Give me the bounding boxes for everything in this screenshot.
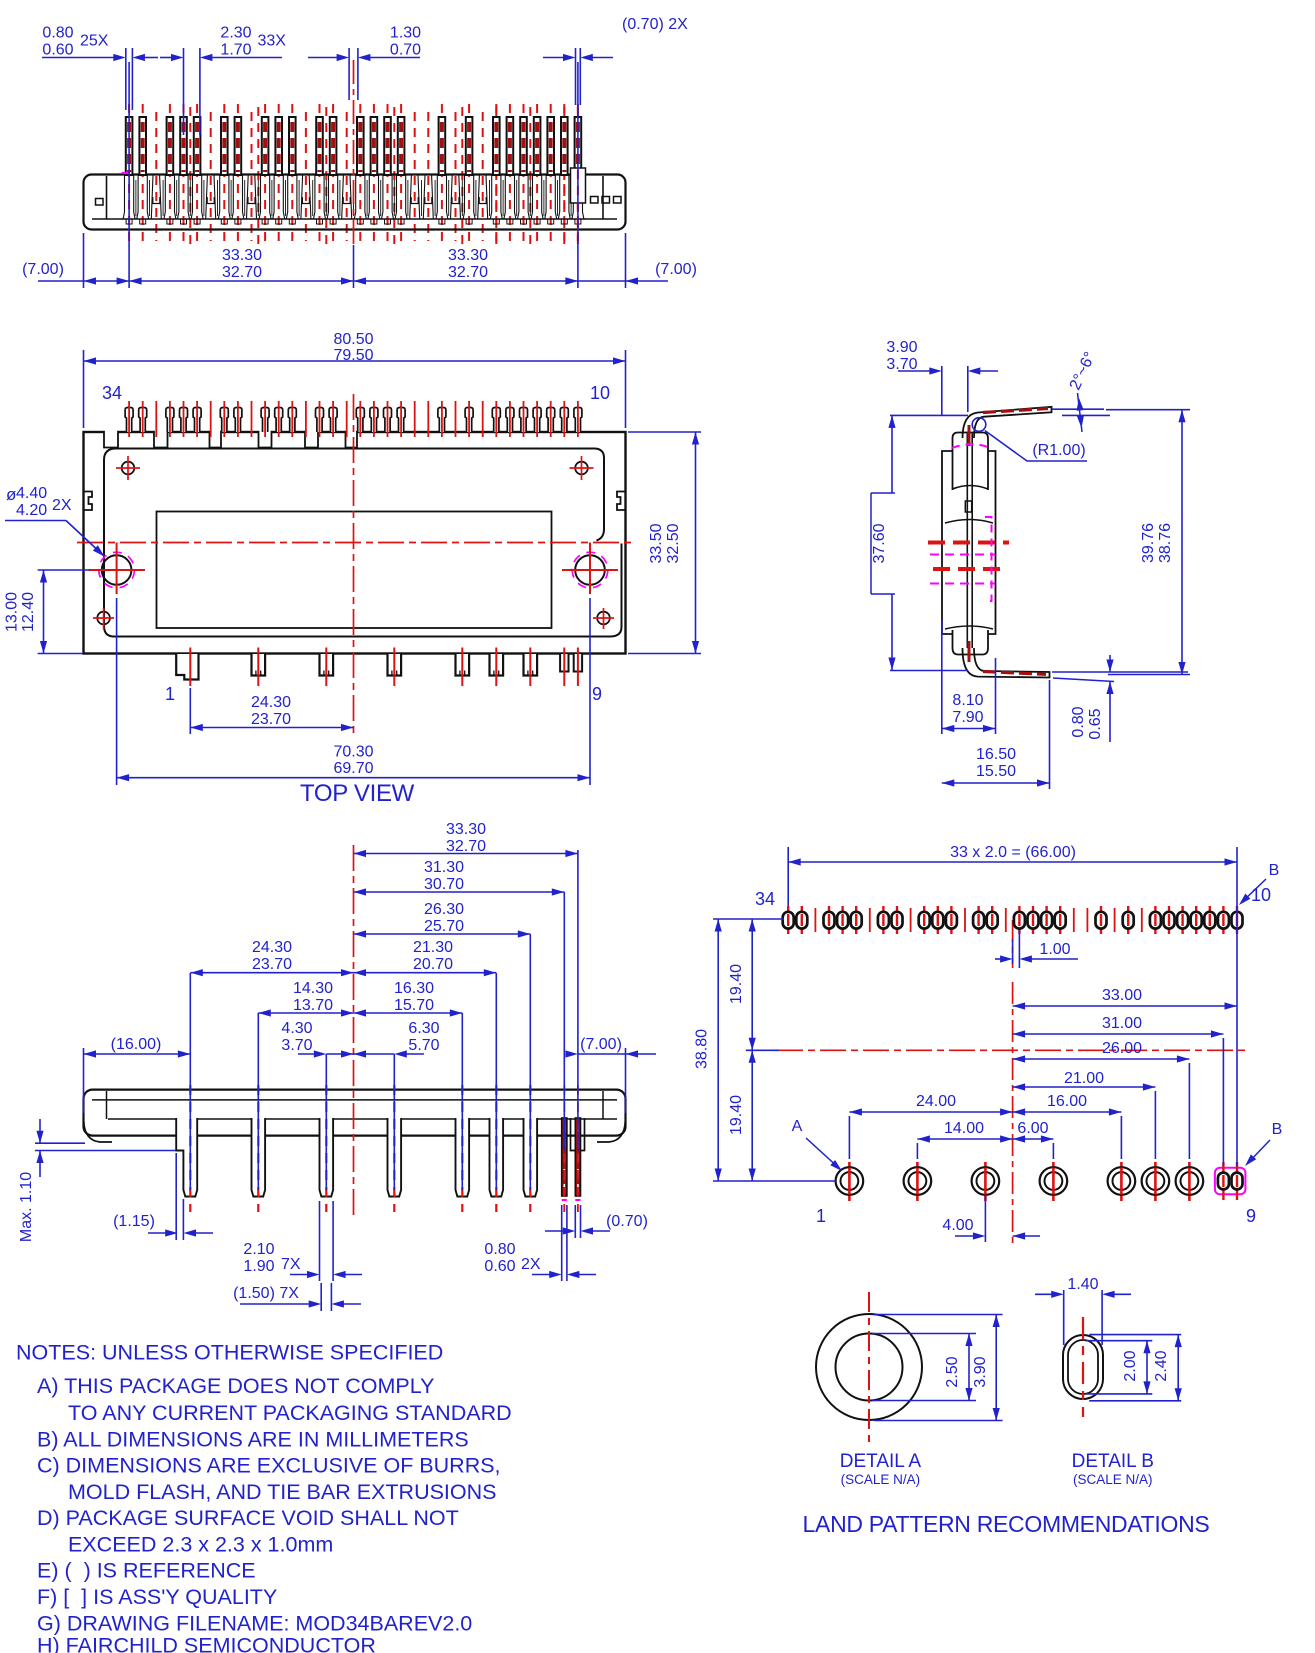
bottom view dim 26.30/25.70 <box>354 901 531 938</box>
svg-text:F) [ ] IS ASS'Y QUALITY: F) [ ] IS ASS'Y QUALITY <box>37 1585 277 1609</box>
bottom view: blue extension lines <box>84 850 626 1190</box>
front view: hidden bottom-row pin centerlines (pins 1-9) <box>190 107 578 247</box>
svg-text:EXCEED 2.3 x 2.3 x 1.0mm: EXCEED 2.3 x 2.3 x 1.0mm <box>68 1533 333 1557</box>
land pattern dim 38.80 (left) <box>694 919 837 1181</box>
svg-text:(7.00): (7.00) <box>580 1036 622 1053</box>
top view: inner frame <box>104 449 622 637</box>
svg-text:37.60: 37.60 <box>871 523 888 563</box>
bottom view: thin pins 8-9 (filled) <box>562 1085 585 1212</box>
detail B dims 2.00 and 2.40 <box>1085 1335 1181 1401</box>
top view: left edge notch <box>84 492 93 511</box>
svg-text:9: 9 <box>592 684 602 704</box>
svg-text:31.30: 31.30 <box>424 859 464 876</box>
svg-text:2.10: 2.10 <box>243 1241 274 1258</box>
svg-text:32.70: 32.70 <box>446 838 486 855</box>
bottom view: pin centerlines 1-7 <box>190 1085 530 1212</box>
land pattern dim 16.00 <box>1013 1093 1122 1159</box>
svg-text:(7.00): (7.00) <box>655 261 697 278</box>
land pattern: horizontal centerline <box>777 1049 1250 1051</box>
svg-text:32.70: 32.70 <box>448 264 488 281</box>
top view title TOP VIEW <box>300 780 415 807</box>
front view dim (0.70) 2X (thin pin width) <box>543 16 688 105</box>
top view dim 80.50/79.50 <box>84 331 626 428</box>
top view: label recess rectangle <box>157 512 552 629</box>
svg-text:4.00: 4.00 <box>942 1217 973 1234</box>
svg-text:A) THIS PACKAGE DOES NOT COMPL: A) THIS PACKAGE DOES NOT COMPLY <box>37 1374 434 1398</box>
bottom view dim 2.10/1.90 7X (pin width) <box>243 1201 362 1281</box>
svg-text:10: 10 <box>590 383 610 403</box>
land pattern label 10 with leader B <box>1239 862 1279 905</box>
svg-text:2.50: 2.50 <box>944 1356 961 1387</box>
front view: body outline <box>84 175 626 230</box>
bottom view dim 21.30/20.70 <box>354 939 497 976</box>
land pattern dim 33 x 2.0 = (66.00) <box>788 844 1237 1166</box>
svg-text:A: A <box>792 1118 803 1135</box>
top view pin label 10 <box>590 383 610 403</box>
svg-text:79.50: 79.50 <box>333 347 373 364</box>
bottom view dim 33.30/32.70 <box>354 821 578 857</box>
bottom view dim Max. 1.10 (standoff) <box>18 1119 176 1242</box>
side view: R1.00 bend circle marker <box>972 418 986 432</box>
land pattern: vertical centerline <box>1012 920 1014 1247</box>
svg-text:33X: 33X <box>258 33 287 50</box>
svg-text:16.50: 16.50 <box>976 746 1016 763</box>
svg-text:33.30: 33.30 <box>446 821 486 838</box>
top view: pin centerlines (red) <box>129 401 578 437</box>
notes text block <box>16 1341 512 1653</box>
land pattern: bottom pads pins 1-7 <box>836 1162 1204 1201</box>
svg-text:(SCALE N/A): (SCALE N/A) <box>841 1472 921 1487</box>
bottom view dim 4.30/3.70 <box>281 1020 366 1058</box>
svg-text:Max. 1.10: Max. 1.10 <box>18 1172 35 1242</box>
svg-text:0.60: 0.60 <box>484 1258 515 1275</box>
svg-text:4.20: 4.20 <box>16 502 47 519</box>
land pattern dim 6.00 <box>1013 1120 1054 1159</box>
svg-text:2.30: 2.30 <box>220 25 251 42</box>
svg-text:B: B <box>1269 862 1280 879</box>
bottom view dim 31.30/30.70 <box>354 859 565 896</box>
bottom view dim 24.30/23.70 <box>190 939 353 976</box>
detail B dim 1.40 <box>1035 1276 1131 1345</box>
svg-text:24.00: 24.00 <box>916 1093 956 1110</box>
svg-text:(R1.00): (R1.00) <box>1032 442 1085 459</box>
svg-text:4.40: 4.40 <box>16 485 47 502</box>
svg-text:3.70: 3.70 <box>281 1037 312 1054</box>
svg-text:19.40: 19.40 <box>728 1095 745 1135</box>
svg-text:9: 9 <box>1246 1206 1256 1226</box>
svg-text:24.30: 24.30 <box>252 939 292 956</box>
svg-text:80.50: 80.50 <box>333 331 373 348</box>
svg-text:20.70: 20.70 <box>413 956 453 973</box>
svg-text:1.00: 1.00 <box>1039 941 1070 958</box>
svg-text:7X: 7X <box>281 1256 301 1273</box>
bottom view dim (1.50) 7X (pin tip) <box>233 1283 361 1311</box>
detail B title <box>1072 1451 1154 1487</box>
svg-text:ø: ø <box>6 485 16 504</box>
bottom view dim 6.30/5.70 <box>341 1020 440 1058</box>
svg-text:0.80: 0.80 <box>42 25 73 42</box>
svg-text:26.00: 26.00 <box>1102 1040 1142 1057</box>
svg-text:4.30: 4.30 <box>281 1020 312 1037</box>
svg-text:E) ( ) IS REFERENCE: E) ( ) IS REFERENCE <box>37 1559 256 1583</box>
svg-text:34: 34 <box>755 889 775 909</box>
svg-text:25.70: 25.70 <box>424 918 464 935</box>
side view dim 0.80/0.65 (lead thickness) <box>1052 655 1188 742</box>
top view: top edge castellation notches <box>104 429 357 448</box>
land pattern: bottom pads pins 8-9 with magenta outline <box>1215 1162 1246 1200</box>
land pattern dim 21.00 <box>1013 1070 1156 1159</box>
svg-text:6.00: 6.00 <box>1017 1120 1048 1137</box>
side view: bottom bent lead <box>963 641 1050 678</box>
land pattern: top row pads (pins 34..10) <box>783 906 1243 934</box>
land pattern dim 19.40 bottom <box>728 1050 756 1181</box>
front view: pin 9/10 slot at right end <box>571 168 586 241</box>
svg-text:34: 34 <box>102 383 122 403</box>
svg-text:38.76: 38.76 <box>1157 523 1174 563</box>
detail A dims 2.50 and 3.90 <box>872 1315 1003 1421</box>
front view: vacant slot hidden pin centerlines <box>156 112 482 241</box>
top view: bottom thin pins 8-9 <box>560 654 582 672</box>
top view pin label 9 <box>592 684 602 704</box>
top view: bottom pins 1-7 <box>176 654 537 680</box>
land pattern dim 4.00 <box>942 1195 1040 1242</box>
svg-text:0.80: 0.80 <box>484 1241 515 1258</box>
land pattern dim 33.00 <box>1013 987 1237 1010</box>
svg-text:D) PACKAGE SURFACE VOID SHALL: D) PACKAGE SURFACE VOID SHALL NOT <box>37 1506 459 1530</box>
svg-text:16.00: 16.00 <box>1047 1093 1087 1110</box>
bottom view: pins 1-7 <box>176 1118 537 1197</box>
side view dim 2~6 degrees <box>1052 349 1110 432</box>
front view: pocket ledge squares at vacant slots <box>153 197 486 204</box>
front view: pin shoulders in body <box>123 175 584 219</box>
svg-text:39.76: 39.76 <box>1140 523 1157 563</box>
front view: vertical centerline <box>353 60 355 245</box>
svg-text:13.70: 13.70 <box>293 997 333 1014</box>
top view: left mounting hole with magenta thread circle <box>89 543 145 595</box>
svg-text:15.50: 15.50 <box>976 763 1016 780</box>
detail B: pad ovals <box>1063 1335 1103 1399</box>
top view: corner screw boss top-right <box>570 456 594 480</box>
bottom view dim 14.30/13.70 <box>258 980 353 1017</box>
svg-text:21.00: 21.00 <box>1064 1070 1104 1087</box>
svg-text:B: B <box>1272 1121 1283 1138</box>
svg-text:(0.70) 2X: (0.70) 2X <box>622 16 688 33</box>
svg-text:G) DRAWING FILENAME: MOD34BARE: G) DRAWING FILENAME: MOD34BAREV2.0 <box>37 1612 472 1636</box>
bottom view dim (1.15) <box>113 1153 213 1240</box>
side view: magenta hidden hole lines <box>930 444 995 601</box>
svg-text:2X: 2X <box>521 1256 541 1273</box>
land pattern dim 19.40 top <box>728 919 756 1050</box>
svg-text:0.80: 0.80 <box>1070 706 1087 737</box>
bottom view dim (0.70) <box>545 1205 648 1238</box>
top view dim 33.50/32.50 (right) <box>628 432 701 654</box>
top view: right mounting hole with magenta thread circle <box>562 543 618 595</box>
front view: magenta datum tick at pin 34 <box>122 172 131 174</box>
front view: pin feet under seating line <box>126 219 581 224</box>
detail B: centerline <box>1082 1317 1084 1417</box>
svg-text:0.70: 0.70 <box>390 42 421 59</box>
front view: top-row pin centerlines <box>129 104 578 241</box>
svg-text:B) ALL DIMENSIONS ARE IN MILLI: B) ALL DIMENSIONS ARE IN MILLIMETERS <box>37 1428 469 1452</box>
svg-text:3.90: 3.90 <box>886 339 917 356</box>
svg-text:(7.00): (7.00) <box>22 261 64 278</box>
svg-text:(0.70): (0.70) <box>606 1213 648 1230</box>
bottom view: body outline <box>84 1090 626 1142</box>
svg-text:33.00: 33.00 <box>1102 987 1142 1004</box>
svg-text:33 x 2.0 = (66.00): 33 x 2.0 = (66.00) <box>950 844 1076 861</box>
land pattern dim 26.00 <box>1013 1040 1190 1159</box>
svg-text:23.70: 23.70 <box>252 956 292 973</box>
top view pin label 34 <box>102 383 122 403</box>
svg-text:NOTES: UNLESS OTHERWISE SPECIF: NOTES: UNLESS OTHERWISE SPECIFIED <box>16 1341 443 1365</box>
land pattern label 9 <box>1246 1206 1256 1226</box>
svg-text:2X: 2X <box>52 497 72 514</box>
top view: corner screw boss bottom-right <box>593 608 614 629</box>
front view: top-row pins (pins 34..10) <box>126 117 581 175</box>
svg-text:70.30: 70.30 <box>333 744 373 761</box>
front view dim 0.80/0.60 25X (pin width) <box>42 25 158 111</box>
land pattern dim 1.00 (row offset) <box>995 930 1078 968</box>
side view dim 37.60 (left) <box>871 415 968 670</box>
svg-text:26.30: 26.30 <box>424 901 464 918</box>
side view: (R1.00) leader and text <box>985 431 1087 462</box>
land pattern dim 24.00 <box>849 1093 1012 1159</box>
svg-text:3.90: 3.90 <box>972 1356 989 1387</box>
svg-text:31.00: 31.00 <box>1102 1015 1142 1032</box>
top view: top-row pins <box>125 408 582 433</box>
detail A: centerline <box>868 1292 870 1442</box>
top view pin label 1 <box>165 684 175 704</box>
top view: corner screw boss bottom-left <box>93 608 114 629</box>
land pattern dim 31.00 <box>1013 1015 1224 1166</box>
side view dim 39.76/38.76 (right) <box>1106 410 1190 675</box>
svg-text:14.30: 14.30 <box>293 980 333 997</box>
land pattern label A with leader <box>792 1118 842 1171</box>
land pattern label 34 <box>755 889 775 909</box>
svg-text:25X: 25X <box>80 33 109 50</box>
svg-text:32.70: 32.70 <box>222 264 262 281</box>
svg-text:15.70: 15.70 <box>394 997 434 1014</box>
svg-text:MOLD FLASH, AND TIE BAR EXTRUS: MOLD FLASH, AND TIE BAR EXTRUSIONS <box>68 1480 497 1504</box>
svg-text:1.40: 1.40 <box>1067 1276 1098 1293</box>
svg-text:69.70: 69.70 <box>333 760 373 777</box>
top view: bottom pin centerlines <box>190 648 578 687</box>
land pattern dim 14.00 <box>917 1120 1012 1159</box>
detail A: pad circles <box>816 1314 922 1420</box>
side view dim 8.10/7.90 <box>942 620 996 734</box>
svg-text:DETAIL B: DETAIL B <box>1072 1451 1154 1472</box>
svg-text:1.70: 1.70 <box>220 42 251 59</box>
svg-text:(SCALE N/A): (SCALE N/A) <box>1073 1472 1153 1487</box>
land pattern label B bottom with leader <box>1245 1121 1282 1166</box>
svg-text:30.70: 30.70 <box>424 876 464 893</box>
svg-text:12.40: 12.40 <box>20 592 37 632</box>
top view dim dia 4.40/4.20 2X with leader <box>5 485 105 557</box>
bottom view dim 0.80/0.60 2X (thin pin width) <box>484 1205 596 1281</box>
svg-text:38.80: 38.80 <box>694 1029 711 1069</box>
front view: pocket divider lines <box>136 180 571 216</box>
top view: corner screw boss top-left <box>116 456 140 480</box>
svg-text:7.90: 7.90 <box>952 709 983 726</box>
svg-text:1: 1 <box>165 684 175 704</box>
top view: horizontal centerline <box>77 542 633 544</box>
svg-text:C) DIMENSIONS ARE EXCLUSIVE OF: C) DIMENSIONS ARE EXCLUSIVE OF BURRS, <box>37 1454 501 1478</box>
svg-text:6.30: 6.30 <box>408 1020 439 1037</box>
svg-text:1.90: 1.90 <box>243 1258 274 1275</box>
svg-text:0.60: 0.60 <box>42 42 73 59</box>
svg-text:LAND PATTERN RECOMMENDATIONS: LAND PATTERN RECOMMENDATIONS <box>803 1511 1210 1537</box>
top view: body outline <box>84 432 626 654</box>
svg-text:TO ANY CURRENT PACKAGING STAND: TO ANY CURRENT PACKAGING STANDARD <box>68 1401 512 1425</box>
bottom view: vertical centerline <box>353 845 355 1218</box>
svg-text:DETAIL A: DETAIL A <box>840 1451 922 1472</box>
front view: molded separator walls <box>151 175 487 219</box>
svg-text:8.10: 8.10 <box>952 692 983 709</box>
front view dim 1.30/0.70 (hidden pin width) <box>308 25 421 101</box>
svg-text:2.00: 2.00 <box>1122 1350 1139 1381</box>
svg-text:10: 10 <box>1251 885 1271 905</box>
svg-text:33.30: 33.30 <box>222 247 262 264</box>
svg-text:16.30: 16.30 <box>394 980 434 997</box>
side view: red section centerlines <box>928 543 1009 570</box>
svg-text:2.40: 2.40 <box>1153 1350 1170 1381</box>
top view: right edge notch <box>617 492 626 511</box>
land pattern label 1 <box>816 1206 826 1226</box>
svg-text:19.40: 19.40 <box>728 964 745 1004</box>
svg-text:14.00: 14.00 <box>944 1120 984 1137</box>
svg-text:1: 1 <box>816 1206 826 1226</box>
side view dim 3.90/3.70 <box>886 339 998 415</box>
svg-text:TOP VIEW: TOP VIEW <box>300 780 415 807</box>
bottom view dim (7.00) <box>565 1036 656 1058</box>
side view: body profile <box>942 433 996 655</box>
land pattern recommendations title <box>803 1511 1210 1537</box>
top view dim 13.00/12.40 (left) <box>4 570 91 654</box>
side view: top bent lead <box>963 407 1052 446</box>
svg-text:5.70: 5.70 <box>408 1037 439 1054</box>
top view dim 24.30/23.70 <box>190 688 353 734</box>
top view dim 70.30/69.70 <box>117 598 590 785</box>
svg-text:33.30: 33.30 <box>448 247 488 264</box>
svg-text:3.70: 3.70 <box>886 356 917 373</box>
top view: vertical centerline <box>353 394 355 737</box>
svg-text:0.65: 0.65 <box>1087 708 1104 739</box>
svg-text:33.50: 33.50 <box>648 523 665 563</box>
svg-text:(16.00): (16.00) <box>111 1036 162 1053</box>
svg-text:21.30: 21.30 <box>413 939 453 956</box>
detail A title <box>840 1451 922 1487</box>
svg-text:24.30: 24.30 <box>251 694 291 711</box>
land pattern: vacant grid ticks <box>815 908 1141 932</box>
bottom view dim 16.30/15.70 <box>354 980 463 1017</box>
side view top extension line <box>890 414 968 416</box>
svg-text:13.00: 13.00 <box>4 592 21 632</box>
front view bottom dims (7.00) / 33.30 32.70 / 33.30 32.70 / (7.00) <box>22 62 697 288</box>
svg-text:1.30: 1.30 <box>390 25 421 42</box>
svg-text:23.70: 23.70 <box>251 711 291 728</box>
svg-text:H) FAIRCHILD SEMICONDUCTOR: H) FAIRCHILD SEMICONDUCTOR <box>37 1634 376 1653</box>
svg-text:32.50: 32.50 <box>665 523 682 563</box>
svg-text:(1.15): (1.15) <box>113 1213 155 1230</box>
front view dim 2.30/1.70 33X (shoulder width) <box>160 25 286 136</box>
side view dim 16.50/15.50 <box>942 680 1050 789</box>
bottom view dim (16.00) <box>84 1036 191 1058</box>
svg-text:(1.50) 7X: (1.50) 7X <box>233 1285 299 1302</box>
